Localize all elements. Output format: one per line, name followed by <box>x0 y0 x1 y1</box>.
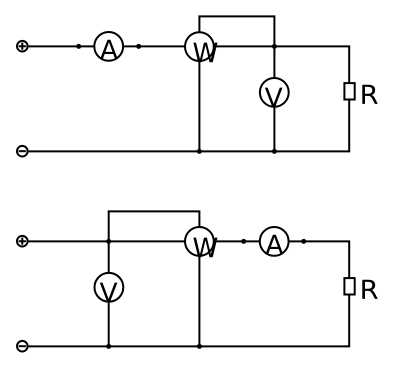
terminal - (circuit 1 source negative) <box>17 146 28 157</box>
voltmeter V1 <box>260 78 289 107</box>
junction: circuit 1, wattmeter return on bottom wire <box>197 149 202 154</box>
junction: circuit 1, right of ammeter A1 <box>136 44 141 49</box>
wire: wattmeter W2 voltage-coil loop <box>109 211 200 241</box>
ammeter A2 <box>260 227 289 256</box>
voltmeter V2 <box>95 273 124 302</box>
resistor R (circuit 1 load) <box>344 83 354 99</box>
wattmeter W1 <box>185 32 217 62</box>
terminal + (circuit 2 source positive) <box>17 236 28 247</box>
ammeter A1 <box>94 32 123 61</box>
wire: voltmeter V2 branch (vertical) <box>108 241 110 346</box>
junction: circuit 1, loop / voltmeter node on top wire <box>272 44 277 49</box>
junction: circuit 1, left of ammeter A1 <box>76 44 81 49</box>
label R (circuit 1) <box>362 85 378 104</box>
junction: circuit 2, voltmeter branch on bottom wire <box>106 344 111 349</box>
resistor R (circuit 2 load) <box>344 278 354 294</box>
terminal - (circuit 2 source negative) <box>17 341 28 352</box>
terminal + (circuit 1 source positive) <box>17 41 28 52</box>
wire: wattmeter W1 voltage-coil loop <box>199 16 274 46</box>
wire: wattmeter W1 current-coil return (vertical) <box>198 46 200 151</box>
junction: circuit 1, voltmeter branch on bottom wire <box>272 149 277 154</box>
junction: circuit 2, left of ammeter A2 <box>241 239 246 244</box>
junction: circuit 2, wattmeter return on bottom wire <box>197 344 202 349</box>
wire: circuit 1 top feeder, right rail and bottom return <box>29 46 350 151</box>
wire: wattmeter W2 current-coil return (vertical) <box>198 241 200 346</box>
wire: circuit 2 top feeder, right rail and bottom return <box>29 241 350 346</box>
wire: voltmeter V1 branch (vertical) <box>273 46 275 151</box>
wattmeter W2 <box>185 227 217 257</box>
junction: circuit 2, right of ammeter A2 <box>301 239 306 244</box>
label R (circuit 2) <box>362 280 378 299</box>
junction: circuit 2, loop / voltmeter node on top wire <box>106 239 111 244</box>
